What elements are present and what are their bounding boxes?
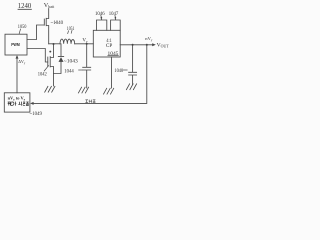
- svg-text:1047: 1047: [109, 11, 119, 17]
- svg-text:1042: 1042: [38, 71, 47, 77]
- svg-text:1044: 1044: [64, 68, 74, 74]
- svg-text:CP: CP: [106, 43, 113, 49]
- svg-text:Vbatt: Vbatt: [44, 2, 54, 9]
- svg-text:nVy to Vy: nVy to Vy: [8, 96, 26, 102]
- svg-text:1051: 1051: [67, 26, 75, 32]
- svg-text:VOUT: VOUT: [157, 43, 170, 49]
- svg-text:ΔVy: ΔVy: [18, 59, 26, 65]
- svg-text:1048: 1048: [114, 68, 123, 74]
- svg-text:PWM: PWM: [11, 42, 20, 48]
- svg-text:~1040: ~1040: [51, 20, 64, 26]
- svg-text:~1049: ~1049: [30, 111, 42, 117]
- svg-text:Vy: Vy: [82, 39, 88, 44]
- svg-text:1050: 1050: [18, 24, 27, 30]
- svg-text:~1043: ~1043: [64, 59, 78, 65]
- svg-text:nVy: nVy: [145, 36, 153, 42]
- svg-text:1046: 1046: [95, 11, 105, 17]
